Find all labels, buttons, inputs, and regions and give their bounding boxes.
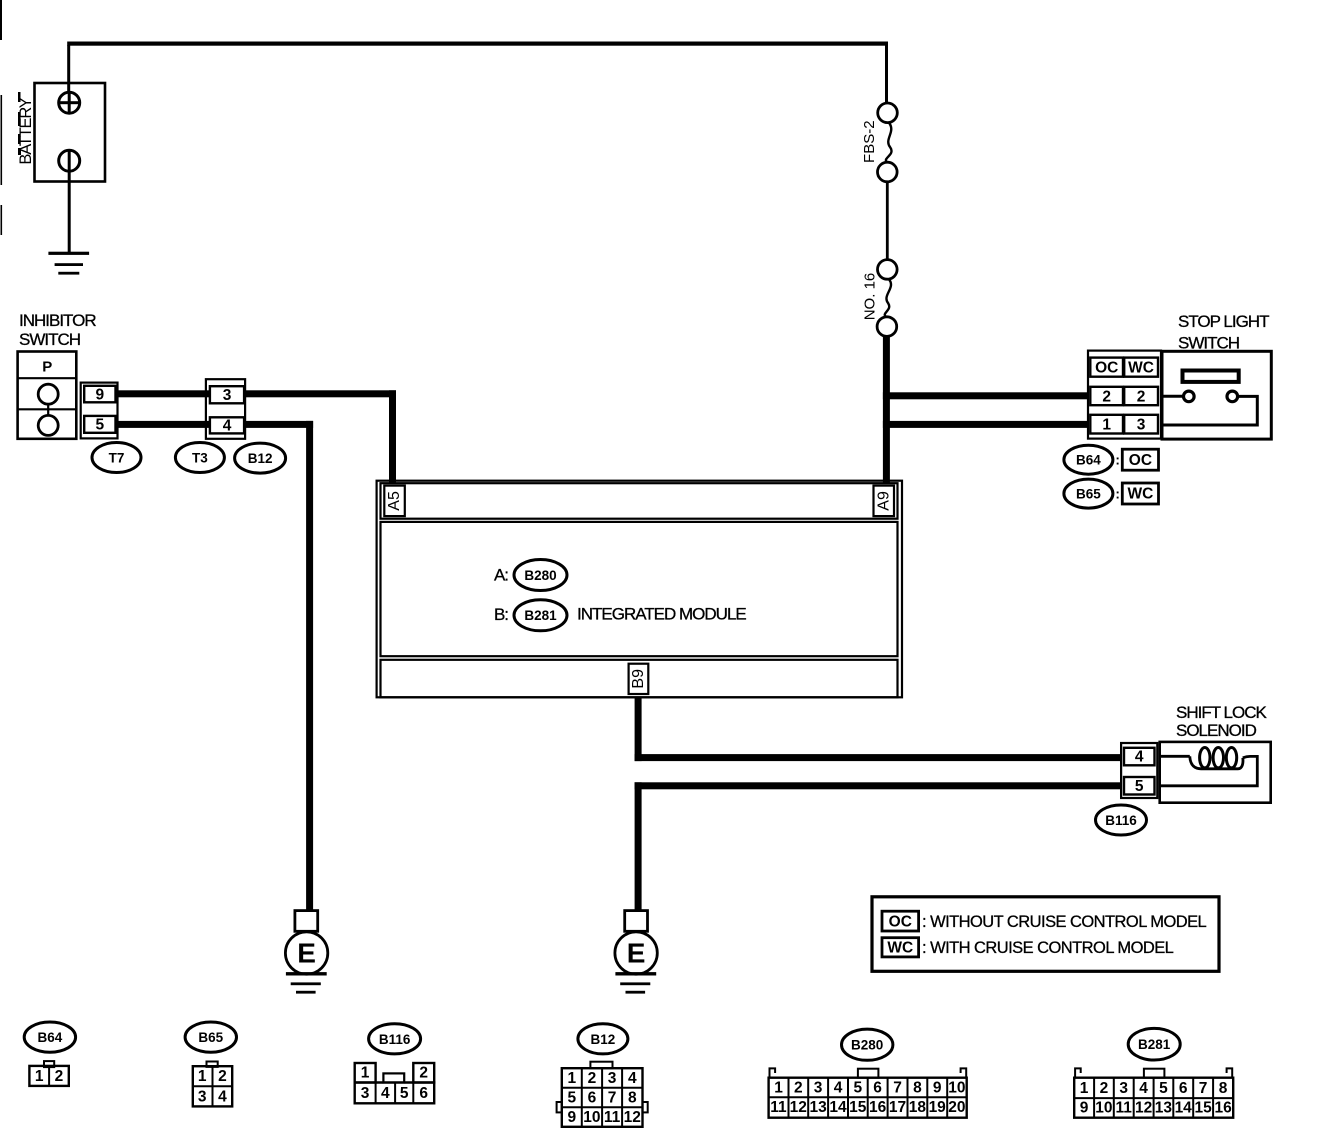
battery: [17, 83, 105, 182]
svg-text:5: 5: [95, 417, 104, 434]
svg-text:3: 3: [608, 1070, 617, 1087]
svg-text::: :: [1115, 453, 1120, 468]
svg-text:4: 4: [834, 1079, 843, 1096]
wire branch to stop light switch pin 2: [883, 392, 1089, 399]
connector pinout label B280: [842, 1029, 893, 1060]
ground E left: [285, 911, 327, 994]
svg-text:6: 6: [1179, 1080, 1188, 1097]
connector label B116: [1096, 805, 1147, 835]
svg-text:15: 15: [849, 1099, 867, 1116]
legend box: [872, 897, 1219, 972]
node A: B280: [494, 560, 567, 591]
stop light switch label: [1178, 312, 1269, 353]
svg-text:B64: B64: [1076, 453, 1101, 468]
svg-text:5: 5: [400, 1085, 409, 1102]
svg-text:12: 12: [624, 1109, 641, 1126]
connector pinout B281: [1074, 1068, 1233, 1117]
connector pinout label B12: [578, 1024, 628, 1054]
svg-text:E: E: [297, 938, 316, 969]
node B: B281: [494, 600, 567, 631]
svg-text:4: 4: [1135, 749, 1144, 766]
svg-text:E: E: [627, 938, 646, 969]
integrated module U1 outline: [377, 481, 902, 698]
svg-text:11: 11: [604, 1109, 621, 1126]
svg-text:9: 9: [1080, 1100, 1089, 1117]
svg-text:14: 14: [1175, 1100, 1193, 1117]
svg-text:5: 5: [853, 1079, 862, 1096]
svg-text:INHIBITOR: INHIBITOR: [19, 311, 96, 330]
connector pinout B280: [769, 1068, 967, 1117]
svg-text:11: 11: [1116, 1100, 1133, 1117]
svg-text:14: 14: [829, 1099, 847, 1116]
connector T7: [81, 383, 118, 439]
svg-text:13: 13: [1155, 1100, 1173, 1117]
svg-text:OC: OC: [889, 913, 912, 930]
svg-text:5: 5: [1159, 1080, 1168, 1097]
wire pin 3 to module A5: [244, 390, 396, 483]
svg-text:INTEGRATED MODULE: INTEGRATED MODULE: [577, 604, 746, 623]
integrated module top connector strip A: [381, 483, 898, 519]
integrated module body: [381, 522, 898, 656]
svg-text:6: 6: [588, 1089, 597, 1106]
svg-text:2: 2: [1100, 1080, 1109, 1097]
svg-text:17: 17: [889, 1099, 906, 1116]
connector label B12: [235, 443, 286, 473]
svg-text:6: 6: [419, 1085, 428, 1102]
connector pinout B65: [193, 1062, 232, 1107]
svg-text:15: 15: [1194, 1100, 1212, 1117]
svg-text:8: 8: [913, 1079, 922, 1096]
svg-text:SWITCH: SWITCH: [1178, 334, 1239, 353]
svg-text:7: 7: [893, 1079, 902, 1096]
wire battery negative to ground: [68, 171, 71, 253]
svg-text:SHIFT LOCK: SHIFT LOCK: [1176, 703, 1267, 722]
svg-text:1: 1: [198, 1068, 207, 1085]
svg-text:9: 9: [95, 386, 104, 403]
connector pinout B12: [557, 1062, 648, 1127]
svg-text:BATTERY: BATTERY: [17, 97, 35, 164]
svg-text:FBS-2: FBS-2: [861, 120, 878, 163]
stop light switch connector: [1088, 351, 1161, 439]
ground below battery: [48, 252, 89, 275]
svg-text:3: 3: [361, 1085, 370, 1102]
svg-text:2: 2: [1137, 388, 1146, 405]
svg-text:9: 9: [567, 1109, 576, 1126]
svg-text:4: 4: [628, 1070, 637, 1087]
svg-text:18: 18: [909, 1099, 927, 1116]
svg-text:10: 10: [1095, 1100, 1112, 1117]
svg-text:3: 3: [1119, 1080, 1128, 1097]
svg-text:2: 2: [55, 1068, 64, 1085]
svg-text:WC: WC: [1128, 359, 1154, 376]
wire top horizontal rail: [67, 42, 888, 46]
svg-text:13: 13: [809, 1099, 827, 1116]
svg-text:B65: B65: [198, 1030, 223, 1045]
svg-text:8: 8: [628, 1089, 637, 1106]
inhibitor switch label: [19, 311, 96, 349]
scan edge artifact line: [0, 0, 21, 235]
svg-text:3: 3: [1137, 417, 1146, 434]
svg-text:1: 1: [1102, 417, 1111, 434]
svg-text:3: 3: [223, 387, 232, 404]
svg-text:WC: WC: [1127, 486, 1153, 503]
svg-text:SOLENOID: SOLENOID: [1176, 721, 1257, 740]
connector T3/B12: [206, 379, 245, 439]
svg-text:B280: B280: [851, 1038, 883, 1053]
connector pinout B64: [29, 1061, 68, 1086]
svg-text:4: 4: [223, 417, 232, 434]
svg-text:B281: B281: [1138, 1037, 1171, 1052]
svg-text:B280: B280: [524, 568, 556, 583]
svg-text:5: 5: [1135, 778, 1144, 795]
svg-text:2: 2: [1102, 388, 1111, 405]
svg-text:1: 1: [774, 1079, 783, 1096]
inhibitor switch body: [18, 352, 77, 439]
svg-text:20: 20: [948, 1099, 965, 1116]
fuse FBS-2: [861, 103, 897, 182]
svg-text:4: 4: [381, 1085, 390, 1102]
wire inhibitor pin 9 to pin 3: [118, 390, 210, 397]
battery negative terminal: [59, 150, 80, 171]
svg-text:5: 5: [567, 1089, 576, 1106]
svg-text:8: 8: [1219, 1080, 1228, 1097]
wire branch stop light switch pin 1: [883, 421, 1089, 428]
svg-text:9: 9: [933, 1079, 942, 1096]
svg-text:7: 7: [1199, 1080, 1208, 1097]
shift lock solenoid connector: [1121, 743, 1157, 798]
wire solenoid pin 5 to ground E: [635, 782, 1122, 911]
svg-text:OC: OC: [1129, 452, 1152, 469]
svg-text:B64: B64: [38, 1030, 63, 1045]
svg-text:B116: B116: [1105, 813, 1137, 828]
svg-text:2: 2: [794, 1079, 803, 1096]
wire battery positive to top rail: [67, 45, 70, 92]
wire top rail down to fuse FBS-2: [885, 42, 888, 104]
svg-text:OC: OC: [1095, 359, 1118, 376]
svg-text:B12: B12: [591, 1032, 616, 1047]
svg-text:P: P: [42, 359, 52, 376]
svg-text:WC: WC: [887, 939, 913, 956]
svg-text:16: 16: [869, 1099, 887, 1116]
svg-text:12: 12: [1135, 1100, 1152, 1117]
svg-text:7: 7: [608, 1089, 617, 1106]
wire inhibitor pin 5 to pin 4: [118, 421, 210, 428]
wire pin 4 down to ground E: [244, 421, 313, 911]
shift lock solenoid L1: [1160, 742, 1271, 803]
svg-text:19: 19: [929, 1099, 947, 1116]
svg-text:11: 11: [770, 1099, 787, 1116]
connector label T3: [175, 443, 224, 473]
svg-text:STOP LIGHT: STOP LIGHT: [1178, 312, 1269, 331]
svg-text:: WITH CRUISE CONTROL MODEL: : WITH CRUISE CONTROL MODEL: [922, 939, 1174, 957]
svg-text:16: 16: [1214, 1100, 1232, 1117]
svg-text:B65: B65: [1076, 487, 1101, 502]
svg-text:10: 10: [583, 1109, 600, 1126]
svg-text:A9: A9: [875, 491, 892, 511]
svg-text:B116: B116: [379, 1032, 411, 1047]
connector pinout label B64: [24, 1022, 75, 1052]
svg-text:2: 2: [588, 1070, 597, 1087]
svg-text:B9: B9: [630, 669, 647, 689]
svg-text::: :: [1115, 487, 1120, 502]
connector pinout label B65: [185, 1022, 236, 1052]
svg-text:1: 1: [567, 1070, 576, 1087]
svg-text:3: 3: [198, 1088, 207, 1105]
integrated module bottom connector strip B: [381, 660, 898, 698]
connector pinout label B281: [1128, 1028, 1180, 1060]
connector label T7: [92, 443, 141, 473]
svg-text:A:: A:: [494, 565, 508, 584]
wire between fuses: [886, 182, 889, 260]
fuse NO.16: [862, 260, 898, 337]
svg-text:2: 2: [419, 1065, 428, 1082]
battery positive terminal: [59, 92, 80, 113]
svg-text:2: 2: [218, 1068, 227, 1085]
connector label B65 : WC: [1064, 479, 1159, 508]
connector pinout label B116: [369, 1024, 421, 1054]
svg-text:: WITHOUT CRUISE CONTROL MODEL: : WITHOUT CRUISE CONTROL MODEL: [922, 913, 1207, 931]
pin A5: [384, 486, 405, 516]
svg-text:3: 3: [814, 1079, 823, 1096]
svg-text:B12: B12: [248, 451, 273, 466]
svg-text:10: 10: [948, 1079, 965, 1096]
connector pinout B116: [355, 1063, 435, 1103]
svg-text:SWITCH: SWITCH: [19, 330, 80, 349]
wire fuse NO.16 down to module A9: [883, 335, 890, 483]
svg-text:12: 12: [790, 1099, 807, 1116]
connector label B64 : OC: [1064, 445, 1159, 474]
svg-text:T7: T7: [109, 451, 125, 466]
svg-text:T3: T3: [192, 451, 208, 466]
svg-text:B:: B:: [494, 605, 508, 624]
ground E right: [615, 911, 657, 994]
shift lock solenoid label: [1176, 703, 1267, 740]
pin B9: [629, 664, 649, 694]
svg-text:4: 4: [1139, 1080, 1148, 1097]
stop light switch S1: [1162, 351, 1271, 439]
svg-text:1: 1: [35, 1068, 44, 1085]
svg-text:NO. 16: NO. 16: [862, 273, 879, 321]
svg-text:1: 1: [1080, 1080, 1089, 1097]
svg-text:B281: B281: [524, 608, 557, 623]
svg-text:A5: A5: [386, 491, 403, 511]
pin A9: [874, 486, 895, 516]
svg-text:6: 6: [873, 1079, 882, 1096]
svg-text:4: 4: [218, 1088, 227, 1105]
svg-text:1: 1: [361, 1065, 370, 1082]
wire module B9 to solenoid pin 4: [635, 697, 1122, 761]
